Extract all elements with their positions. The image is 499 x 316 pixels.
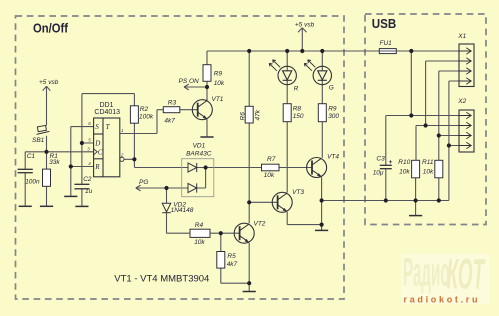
svg-text:SB1: SB1 — [32, 137, 45, 144]
svg-text:VT3: VT3 — [292, 189, 304, 196]
svg-text:R9: R9 — [214, 71, 223, 78]
svg-text:10k: 10k — [194, 239, 205, 246]
svg-text:PS ON: PS ON — [179, 78, 200, 85]
svg-text:100k: 100k — [139, 114, 154, 121]
svg-text:1N4148: 1N4148 — [171, 207, 194, 214]
svg-text:1u: 1u — [85, 188, 93, 195]
svg-text:4k7: 4k7 — [227, 261, 238, 268]
svg-text:FU1: FU1 — [380, 40, 393, 47]
svg-text:R9: R9 — [328, 105, 337, 112]
svg-text:+5 vsb: +5 vsb — [39, 79, 59, 86]
svg-text:G: G — [329, 85, 334, 92]
svg-text:R6: R6 — [240, 112, 247, 121]
svg-text:C3: C3 — [376, 155, 385, 162]
svg-text:R2: R2 — [140, 106, 149, 113]
svg-text:+5 vsb: +5 vsb — [295, 21, 315, 28]
svg-text:+: + — [389, 159, 393, 166]
svg-text:C2: C2 — [83, 176, 92, 183]
svg-text:BAR43C: BAR43C — [186, 150, 212, 157]
svg-text:VD1: VD1 — [193, 143, 206, 150]
svg-text:VT4: VT4 — [327, 154, 339, 161]
svg-text:R3: R3 — [168, 99, 177, 106]
svg-text:10μ: 10μ — [373, 170, 384, 177]
svg-text:R7: R7 — [267, 156, 276, 163]
svg-text:C1: C1 — [27, 153, 36, 160]
svg-text:100n: 100n — [25, 179, 40, 186]
svg-text:D: D — [94, 139, 100, 147]
svg-text:X2: X2 — [457, 98, 466, 105]
svg-text:C: C — [98, 148, 103, 156]
svg-text:R: R — [94, 163, 100, 171]
svg-text:VT1: VT1 — [212, 96, 224, 103]
svg-text:R8: R8 — [293, 105, 302, 112]
svg-text:КОТ: КОТ — [447, 251, 486, 299]
svg-text:X1: X1 — [457, 33, 466, 40]
svg-text:33k: 33k — [49, 159, 60, 166]
svg-text:300: 300 — [328, 113, 339, 120]
svg-text:2: 2 — [120, 153, 124, 158]
svg-text:CD4013: CD4013 — [94, 109, 120, 116]
svg-text:VT2: VT2 — [254, 221, 266, 228]
svg-text:S: S — [95, 123, 99, 131]
svg-text:10k: 10k — [399, 168, 410, 175]
svg-text:R11: R11 — [422, 159, 434, 166]
svg-text:R5: R5 — [227, 253, 236, 260]
svg-text:On/Off: On/Off — [33, 20, 69, 35]
svg-text:10k: 10k — [264, 172, 275, 179]
svg-text:USB: USB — [372, 17, 397, 31]
svg-text:PG: PG — [139, 179, 148, 186]
svg-text:VT1 - VT4 MMBT3904: VT1 - VT4 MMBT3904 — [114, 273, 209, 284]
svg-text:R: R — [294, 85, 299, 92]
svg-text:R10: R10 — [398, 159, 410, 166]
svg-text:10k: 10k — [423, 168, 434, 175]
svg-text:R4: R4 — [195, 222, 204, 229]
svg-text:4k7: 4k7 — [164, 117, 175, 124]
svg-text:47k: 47k — [255, 109, 262, 120]
svg-text:150: 150 — [293, 113, 304, 120]
svg-text:Радио: Радио — [403, 251, 450, 295]
svg-text:10k: 10k — [214, 80, 225, 87]
svg-text:radiokot.ru: radiokot.ru — [404, 295, 481, 305]
